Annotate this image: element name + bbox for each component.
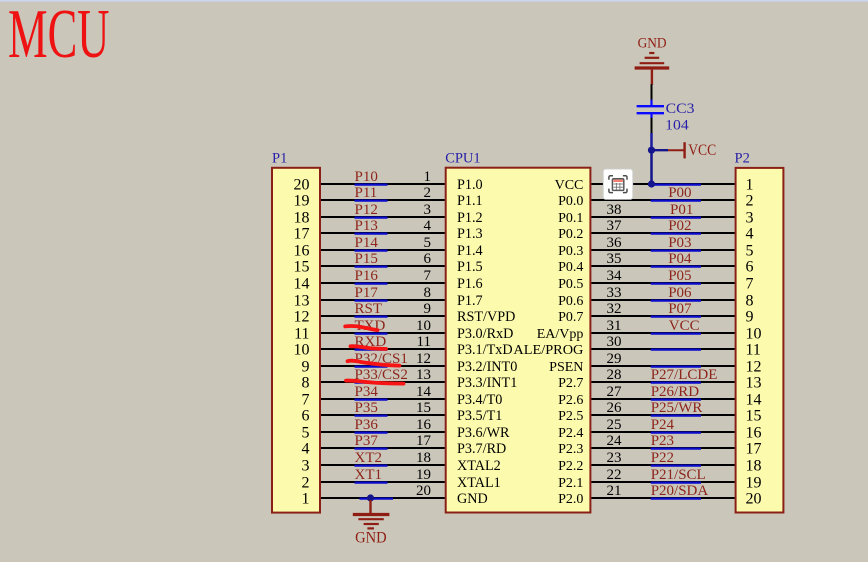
svg-text:P1.4: P1.4 [457,243,483,259]
svg-text:P27/LCDE: P27/LCDE [651,367,718,383]
ground symbol (bottom) [353,500,390,528]
svg-text:6: 6 [424,251,432,267]
wire P1 pin 3 to CPU1 pin 18 [321,464,445,466]
junction node C (GND net on P1 pin 1 wire) [367,494,374,501]
svg-text:7: 7 [302,392,310,409]
net segment under label XT1 [355,482,388,484]
svg-text:12: 12 [746,359,762,376]
wire P1 pin 5 to CPU1 pin 16 [321,431,445,433]
svg-text:P0.3: P0.3 [558,244,583,259]
svg-text:5: 5 [424,235,432,251]
wire P1 pin 8 to CPU1 pin 13 [321,381,445,383]
net segment under label P37 [355,448,388,450]
top window strip [0,0,868,2]
svg-text:29: 29 [607,351,622,367]
svg-text:P07: P07 [668,301,692,317]
svg-text:17: 17 [416,433,432,449]
svg-text:P1.3: P1.3 [457,226,483,242]
svg-text:30: 30 [607,334,622,350]
capacitor CC3 plates [637,100,664,119]
svg-text:37: 37 [607,218,623,234]
net segment under label P13 [355,233,388,235]
svg-text:P1.0: P1.0 [457,177,483,193]
net segment under label P36 [355,432,388,434]
net segment under label P12 [355,217,388,219]
annotation scribble through RXD [351,346,387,349]
wire P1 pin 18 to CPU1 pin 3 [321,216,445,218]
wire CPU1 pin 33 to P2 pin 8 [591,299,734,301]
svg-text:VCC: VCC [688,142,716,159]
svg-text:P37: P37 [355,433,379,449]
svg-text:2: 2 [302,475,310,492]
svg-text:MCU: MCU [8,0,109,73]
svg-text:P22: P22 [651,450,674,466]
svg-text:P06: P06 [668,285,692,301]
wire CPU1 pin 25 to P2 pin 16 [591,431,734,433]
svg-text:1: 1 [424,169,432,185]
svg-text:20: 20 [294,177,310,194]
net segment under label P00 [651,200,701,202]
svg-text:P2.3: P2.3 [558,442,583,457]
svg-text:13: 13 [294,293,310,310]
svg-text:7: 7 [424,268,432,284]
svg-text:16: 16 [746,425,762,442]
svg-text:14: 14 [294,276,310,293]
svg-text:8: 8 [424,285,432,301]
svg-text:P17: P17 [355,285,379,301]
svg-text:15: 15 [416,400,431,416]
wire CPU1 pin 29 to P2 pin 12 [591,365,734,367]
svg-text:23: 23 [607,450,622,466]
svg-text:P03: P03 [668,235,691,251]
net segment under label P32/CS1 [355,366,388,368]
svg-text:P2.0: P2.0 [558,492,583,507]
svg-text:P04: P04 [668,251,692,267]
svg-text:RST/VPD: RST/VPD [457,309,515,325]
junction node A (VCC) [648,147,655,154]
svg-text:4: 4 [424,218,432,234]
svg-text:13: 13 [746,375,762,392]
net segment under label P11 [355,200,388,202]
svg-text:P3.1/TxD: P3.1/TxD [457,342,513,358]
svg-text:P2.1: P2.1 [558,476,583,491]
svg-text:P2.4: P2.4 [558,426,583,441]
net segment (GND net, left row 20) [360,498,394,500]
wire P1 pin 9 to CPU1 pin 12 [321,365,445,367]
wire P1 pin 1 to CPU1 pin 20 [321,497,445,499]
svg-text:9: 9 [424,301,432,317]
svg-text:22: 22 [607,467,622,483]
wire P1 pin 19 to CPU1 pin 2 [321,199,445,201]
svg-text:P02: P02 [668,218,691,234]
svg-text:RST: RST [355,301,383,317]
svg-text:P26/RD: P26/RD [651,384,700,400]
svg-text:2: 2 [424,185,432,201]
svg-text:EA/Vpp: EA/Vpp [537,327,584,342]
svg-text:P3.5/T1: P3.5/T1 [457,408,502,424]
net segment under label P06 [651,300,701,302]
svg-text:P2: P2 [735,150,750,166]
cursor icon overlay (white button with table glyph) [603,169,632,199]
net segment under label P05 [651,283,701,285]
svg-text:VCC: VCC [555,178,584,193]
wire CPU1 pin 21 to P2 pin 20 [591,497,734,499]
svg-text:P0.5: P0.5 [558,277,583,292]
svg-text:P1.7: P1.7 [457,293,483,309]
wire CPU1 pin 32 to P2 pin 9 [591,315,734,317]
svg-text:P35: P35 [355,400,378,416]
svg-text:P0.1: P0.1 [558,211,583,226]
svg-text:P3.2/INT0: P3.2/INT0 [457,359,517,375]
svg-text:PSEN: PSEN [549,360,583,375]
svg-text:20: 20 [746,491,762,508]
svg-text:3: 3 [302,458,310,475]
wire CPU1 pin 28 to P2 pin 13 [591,381,734,383]
wire P1 pin 20 to CPU1 pin 1 [321,183,445,185]
annotation scribble through P33/CS2 [346,381,404,384]
net segment under label P17 [355,300,388,302]
svg-text:18: 18 [416,450,431,466]
svg-text:27: 27 [607,384,623,400]
net segment under label P16 [355,283,388,285]
net segment under label P23 [651,448,701,450]
net segment under label P04 [651,266,701,268]
svg-text:P2.7: P2.7 [558,376,583,391]
svg-text:P25/WR: P25/WR [651,400,703,416]
wire P1 pin 12 to CPU1 pin 9 [321,315,445,317]
svg-text:P01: P01 [670,202,693,218]
svg-text:CC3: CC3 [666,101,695,117]
svg-text:11: 11 [294,326,309,343]
svg-text:GND: GND [355,529,387,546]
net segment under label RST [355,316,388,318]
wire CPU1 pin 34 to P2 pin 7 [591,282,734,284]
svg-text:11: 11 [746,342,761,359]
svg-text:GND: GND [638,36,667,52]
net segment under label P02 [651,233,701,235]
svg-text:104: 104 [665,118,689,134]
svg-text:21: 21 [607,483,622,499]
svg-text:P1.6: P1.6 [457,276,483,292]
net segment under label P27/LCDE [651,382,701,384]
svg-text:XT1: XT1 [355,467,383,483]
wire P1 pin 10 to CPU1 pin 11 [321,348,445,350]
svg-text:17: 17 [746,441,762,458]
svg-text:15: 15 [746,408,762,425]
svg-text:4: 4 [302,441,310,458]
net segment under label RXD [355,349,388,351]
svg-text:P21/SCL: P21/SCL [651,467,706,483]
wire CPU1 pin 36 to P2 pin 5 [591,249,734,251]
wire P1 pin 17 to CPU1 pin 4 [321,232,445,234]
svg-text:36: 36 [607,235,623,251]
svg-text:P13: P13 [355,218,378,234]
svg-text:P12: P12 [355,202,378,218]
net segment under label TXD [355,333,388,335]
wire P1 pin 14 to CPU1 pin 7 [321,282,445,284]
wire P1 pin 16 to CPU1 pin 5 [321,249,445,251]
svg-text:19: 19 [416,467,431,483]
svg-text:20: 20 [416,483,431,499]
svg-text:13: 13 [416,367,431,383]
svg-text:10: 10 [416,318,431,334]
svg-text:12: 12 [294,309,310,326]
svg-text:P34: P34 [355,384,379,400]
net segment under label P07 [651,316,701,318]
svg-text:P23: P23 [651,433,674,449]
net segment under label [651,366,701,368]
connector P2 body [736,168,784,513]
wire ground to capacitor CC3 [651,84,653,100]
svg-text:XT2: XT2 [355,450,383,466]
svg-text:P1: P1 [272,150,287,166]
net segment VCC rail from junction [648,184,701,186]
svg-text:33: 33 [607,285,622,301]
power port VCC symbol [668,142,685,158]
wire CPU1 pin 40 to P2 pin 1 [591,183,734,185]
wire node A stub to VCC symbol [652,149,669,151]
svg-text:P24: P24 [651,417,675,433]
svg-text:P16: P16 [355,268,379,284]
svg-text:19: 19 [294,193,310,210]
svg-text:19: 19 [746,475,762,492]
net segment under label P01 [651,217,701,219]
wire P1 pin 2 to CPU1 pin 19 [321,481,445,483]
svg-text:11: 11 [417,334,431,350]
wire CPU1 pin 39 to P2 pin 2 [591,199,734,201]
svg-text:16: 16 [416,417,432,433]
svg-text:9: 9 [746,309,754,326]
net segment under label XT2 [355,465,388,467]
net segment under label P14 [355,250,388,252]
svg-text:P14: P14 [355,235,379,251]
svg-text:P3.3/INT1: P3.3/INT1 [457,375,517,391]
wire CPU1 pin 37 to P2 pin 4 [591,232,734,234]
svg-text:3: 3 [424,202,432,218]
wire P1 pin 6 to CPU1 pin 15 [321,414,445,416]
net segment under label VCC [651,333,701,335]
svg-text:2: 2 [746,193,754,210]
connector P1 body [272,168,320,513]
svg-text:25: 25 [607,417,622,433]
net segment under label P21/SCL [651,482,701,484]
svg-text:5: 5 [746,243,754,260]
svg-text:6: 6 [746,259,754,276]
net segment under label P25/WR [651,415,701,417]
svg-text:14: 14 [416,384,432,400]
net segment under label P33/CS2 [355,382,388,384]
svg-text:P0.6: P0.6 [558,294,583,309]
svg-text:1: 1 [746,177,754,194]
IC CPU1 body (8051 MCU) [446,168,591,513]
svg-text:P0.7: P0.7 [558,310,583,325]
svg-text:16: 16 [294,243,310,260]
svg-text:35: 35 [607,251,622,267]
svg-text:28: 28 [607,367,622,383]
ground symbol (top, inverted) [635,53,670,85]
svg-text:P11: P11 [355,185,378,201]
junction node B (on VCC wire to P2 pin 1) [648,180,655,187]
svg-text:P1.2: P1.2 [457,210,483,226]
wire CPU1 pin 23 to P2 pin 18 [591,464,734,466]
svg-text:1: 1 [302,491,310,508]
wire P1 pin 13 to CPU1 pin 8 [321,299,445,301]
svg-text:34: 34 [607,268,623,284]
svg-text:GND: GND [457,491,488,507]
wire CPU1 pin 27 to P2 pin 14 [591,398,734,400]
net segment under label P15 [355,266,388,268]
svg-text:8: 8 [302,375,310,392]
svg-text:10: 10 [294,342,310,359]
svg-text:P0.2: P0.2 [558,227,583,242]
annotation scribble through TXD [345,326,377,330]
svg-text:3: 3 [746,210,754,227]
net segment under label P26/RD [651,399,701,401]
wire CPU1 pin 22 to P2 pin 19 [591,481,734,483]
svg-text:12: 12 [416,351,431,367]
svg-text:XTAL1: XTAL1 [457,475,501,491]
svg-text:P00: P00 [668,185,691,201]
svg-text:P3.6/WR: P3.6/WR [457,425,510,441]
title MCU [8,0,109,73]
svg-text:P2.2: P2.2 [558,459,583,474]
net segment under label P03 [651,250,701,252]
net segment under label P24 [651,432,701,434]
net segment under label P22 [651,465,701,467]
net segment under label P35 [355,415,388,417]
wire P1 pin 7 to CPU1 pin 14 [321,398,445,400]
svg-text:P3.0/RxD: P3.0/RxD [457,326,513,342]
svg-text:31: 31 [607,318,622,334]
wire CPU1 pin 35 to P2 pin 6 [591,265,734,267]
net segment under label P34 [355,399,388,401]
svg-text:4: 4 [746,226,754,243]
svg-text:P1.5: P1.5 [457,259,483,275]
wire CPU1 pin 38 to P2 pin 3 [591,216,734,218]
annotation scribble through P32/CS1 [348,361,400,366]
svg-text:17: 17 [294,226,310,243]
wire CPU1 pin 26 to P2 pin 15 [591,414,734,416]
svg-text:6: 6 [302,408,310,425]
svg-text:18: 18 [746,458,762,475]
svg-text:P05: P05 [668,268,691,284]
svg-text:P0.0: P0.0 [558,194,583,209]
svg-text:26: 26 [607,400,623,416]
net segment under label [651,349,701,351]
svg-text:24: 24 [607,433,623,449]
svg-text:10: 10 [746,326,762,343]
svg-text:7: 7 [746,276,754,293]
svg-text:14: 14 [746,392,762,409]
wire capacitor CC3 to node A (net run) [650,133,653,150]
svg-text:15: 15 [294,259,310,276]
svg-text:P10: P10 [355,169,378,185]
svg-text:CPU1: CPU1 [445,151,480,167]
svg-text:P36: P36 [355,417,379,433]
wire CPU1 pin 24 to P2 pin 17 [591,447,734,449]
svg-text:P20/SDA: P20/SDA [651,483,709,499]
wire P1 pin 11 to CPU1 pin 10 [321,332,445,334]
wire CPU1 pin 31 to P2 pin 10 [591,332,734,334]
svg-text:P3.4/T0: P3.4/T0 [457,392,502,408]
svg-text:32: 32 [607,301,622,317]
wire capacitor CC3 to node A (black run) [651,118,653,134]
svg-text:5: 5 [302,425,310,442]
svg-text:9: 9 [302,359,310,376]
wire P1 pin 4 to CPU1 pin 17 [321,447,445,449]
svg-text:P1.1: P1.1 [457,193,483,209]
svg-text:XTAL2: XTAL2 [457,458,501,474]
svg-text:P15: P15 [355,251,378,267]
svg-text:P3.7/RD: P3.7/RD [457,441,506,457]
net segment under label P10 [355,184,388,186]
svg-text:38: 38 [607,202,622,218]
svg-text:ALE/PROG: ALE/PROG [513,343,583,358]
svg-text:P0.4: P0.4 [558,260,583,275]
wire node A to node B [650,150,653,184]
wire P1 pin 15 to CPU1 pin 6 [321,265,445,267]
svg-text:8: 8 [746,293,754,310]
svg-text:P2.6: P2.6 [558,393,583,408]
svg-text:P2.5: P2.5 [558,409,583,424]
net segment under label P20/SDA [651,498,701,500]
svg-text:VCC: VCC [669,318,700,334]
svg-text:18: 18 [294,210,310,227]
wire CPU1 pin 30 to P2 pin 11 [591,348,734,350]
